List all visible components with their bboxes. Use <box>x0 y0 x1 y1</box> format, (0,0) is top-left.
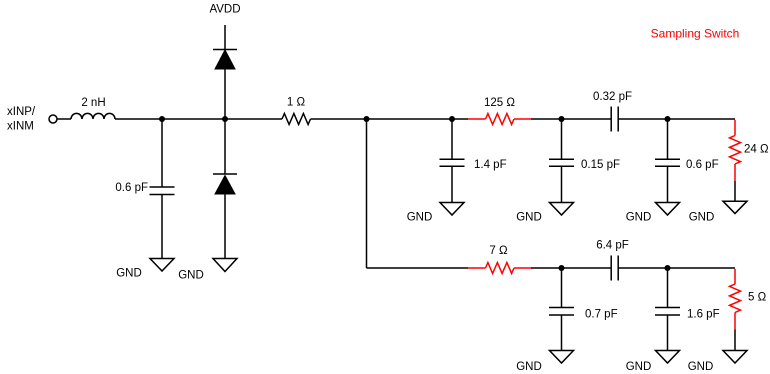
svg-text:GND: GND <box>688 361 714 373</box>
svg-text:24 Ω: 24 Ω <box>744 144 769 156</box>
wire C8 to ground <box>667 315 669 351</box>
svg-text:6.4 pF: 6.4 pF <box>596 240 629 252</box>
ground (C8) <box>656 351 680 364</box>
resistor R2 125 ohm (red) <box>468 114 531 125</box>
svg-text:1.4 pF: 1.4 pF <box>474 159 507 171</box>
wire C6 to ground <box>561 315 563 351</box>
wire R4 to C7 <box>531 267 611 269</box>
ground (C1) <box>150 259 174 272</box>
capacitor C7 6.4 pF plates (series) <box>611 256 618 281</box>
svg-text:125 Ω: 125 Ω <box>484 97 515 109</box>
diode D2 (to GND) <box>213 174 237 194</box>
wire C3 to ground <box>561 166 563 202</box>
wire C1 to ground <box>161 195 163 259</box>
svg-text:1 Ω: 1 Ω <box>287 97 306 109</box>
ground (C6) <box>550 351 574 364</box>
capacitor C3 0.15 pF lead <box>561 119 563 159</box>
junction dot branch node <box>364 116 370 122</box>
capacitor C8 1.6 pF plates <box>655 307 680 309</box>
wire R2 to C4 <box>531 118 611 120</box>
svg-text:0.32 pF: 0.32 pF <box>593 91 632 103</box>
ground (D2) <box>213 259 237 272</box>
capacitor C1 0.6 pF plates <box>150 186 175 188</box>
ground (R5) <box>723 351 747 364</box>
capacitor C4 0.32 pF plates (series) <box>611 107 618 132</box>
svg-text:0.6 pF: 0.6 pF <box>686 159 719 171</box>
capacitor C5 0.6 pF lead <box>667 119 669 159</box>
svg-text:2 nH: 2 nH <box>81 97 105 109</box>
capacitor C3 0.15 pF plates <box>549 158 574 160</box>
svg-text:GND: GND <box>516 361 542 373</box>
capacitor C1 0.6 pF lead <box>161 119 163 187</box>
wire R1 to R2 (crosses branch node) <box>311 118 469 120</box>
resistor R4 7 ohm (red) <box>468 263 531 274</box>
capacitor C6 0.7 pF lead <box>561 268 563 308</box>
ground (C3) <box>550 203 574 216</box>
junction dot C3 tap <box>559 116 565 122</box>
resistor R5 5 ohm (red, vertical) <box>730 269 741 330</box>
svg-text:xINM: xINM <box>7 121 34 133</box>
wire D1 to D2 <box>224 69 226 174</box>
svg-text:GND: GND <box>626 361 652 373</box>
capacitor C2 1.4 pF plates <box>440 158 465 160</box>
wire inductor to resistor R1 <box>115 118 282 120</box>
ground (R3) <box>723 201 747 213</box>
junction dot node A (0.6pF tap) <box>159 116 165 122</box>
svg-text:GND: GND <box>626 212 652 224</box>
wire C4 to corner (crosses C5 tap) <box>618 118 735 120</box>
wire C5 to ground <box>667 166 669 202</box>
svg-text:0.15 pF: 0.15 pF <box>581 159 620 171</box>
wire AVDD to diode D1 <box>224 25 226 50</box>
resistor R1 1 ohm <box>282 114 311 125</box>
wire branch down <box>366 119 368 268</box>
svg-text:0.7 pF: 0.7 pF <box>585 309 618 321</box>
inductor L1 2 nH <box>71 113 115 119</box>
wire R3 to ground <box>734 181 736 201</box>
svg-text:GND: GND <box>516 212 542 224</box>
svg-text:GND: GND <box>178 270 204 282</box>
wire terminal to inductor <box>58 118 72 120</box>
junction dot node B (diode tap) <box>222 116 228 122</box>
svg-text:Sampling Switch: Sampling Switch <box>651 27 740 41</box>
resistor R3 24 ohm (red, vertical) <box>730 120 741 181</box>
node xINP/xINM label <box>7 106 36 133</box>
wire C7 to corner (crosses C8 tap) <box>618 267 735 269</box>
wire R5 to ground <box>734 330 736 351</box>
svg-text:5 Ω: 5 Ω <box>748 292 767 304</box>
ground (C2) <box>440 203 464 216</box>
svg-text:xINP/: xINP/ <box>7 106 36 118</box>
capacitor C5 0.6 pF plates <box>655 158 680 160</box>
junction dot C5 tap <box>665 116 671 122</box>
wire C2 to ground <box>451 166 453 202</box>
svg-text:GND: GND <box>407 212 433 224</box>
svg-text:0.6 pF: 0.6 pF <box>115 182 148 194</box>
capacitor C8 1.6 pF lead <box>667 268 669 308</box>
wire bottom branch left <box>367 267 469 269</box>
junction dot C2 tap <box>449 116 455 122</box>
capacitor C6 0.7 pF plates <box>549 307 574 309</box>
svg-text:AVDD: AVDD <box>209 4 240 16</box>
wire D2 to ground <box>224 194 226 259</box>
svg-text:GND: GND <box>689 212 715 224</box>
junction dot C6 tap <box>559 265 565 271</box>
svg-text:1.6 pF: 1.6 pF <box>687 309 720 321</box>
junction dot C8 tap <box>665 265 671 271</box>
ground (C5) <box>656 203 680 216</box>
svg-text:GND: GND <box>116 268 142 280</box>
capacitor C2 1.4 pF lead <box>451 119 453 159</box>
diode D1 (to AVDD) <box>213 50 237 70</box>
svg-text:7 Ω: 7 Ω <box>489 245 508 257</box>
terminal (input pin circle) <box>49 115 57 123</box>
